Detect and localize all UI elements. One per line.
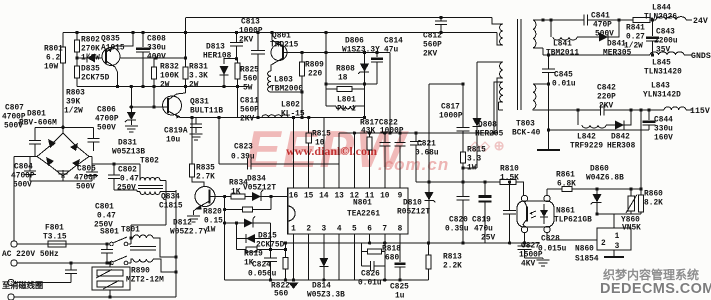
inductor L841 — [550, 20, 552, 37]
zener D810 — [425, 192, 434, 201]
capacitor C824 — [270, 223, 272, 258]
svg-text:C811: C811 — [240, 98, 259, 106]
capacitor C825 — [399, 234, 401, 262]
resistor R841 — [633, 17, 650, 22]
ground - C819A — [190, 133, 203, 135]
wire - Q801 base row — [283, 52, 390, 54]
inductor L801 — [325, 89, 327, 106]
wire - R861 row — [546, 189, 548, 195]
capacitor C801 — [106, 244, 108, 250]
wire - aux column — [325, 33, 327, 85]
wire - pin13 — [338, 133, 340, 188]
capacitor C822a — [384, 133, 386, 143]
terminal - degauss 2 — [8, 294, 14, 300]
svg-text:C805: C805 — [77, 166, 96, 174]
svg-text:0.47: 0.47 — [120, 176, 139, 184]
svg-text:560: 560 — [243, 76, 257, 84]
svg-text:Q835: Q835 — [101, 36, 120, 44]
svg-text:Q834: Q834 — [161, 194, 180, 202]
zener D812 — [225, 222, 244, 224]
svg-text:C801: C801 — [95, 204, 114, 212]
capacitor C806 — [93, 127, 95, 138]
transformer T803 primary — [492, 18, 503, 25]
svg-text:L845: L845 — [652, 60, 671, 68]
svg-text:14: 14 — [319, 193, 329, 201]
svg-text:220: 220 — [308, 71, 322, 79]
diode D842 — [606, 124, 615, 126]
ground - bridge — [62, 170, 64, 176]
svg-text:2KV: 2KV — [423, 51, 437, 59]
resistor R831 — [183, 67, 188, 79]
svg-text:500V: 500V — [97, 125, 116, 133]
wire - bus 86 — [77, 86, 186, 88]
svg-text:D842: D842 — [611, 134, 630, 142]
svg-text:0.39u: 0.39u — [445, 226, 469, 234]
transistor Q831 emitter node / resistor R835 — [191, 118, 193, 165]
capacitor C817 — [462, 84, 464, 127]
svg-text:9: 9 — [398, 193, 403, 201]
svg-text:R818: R818 — [382, 246, 401, 254]
svg-text:330u: 330u — [654, 126, 673, 134]
svg-text:7: 7 — [382, 226, 387, 234]
wire - 115V return — [549, 129, 650, 131]
wire - pin14 — [323, 118, 325, 189]
resistor R816 — [308, 118, 310, 134]
svg-text:3: 3 — [615, 243, 620, 251]
inductor L803 — [268, 71, 271, 92]
svg-text:16: 16 — [289, 193, 299, 201]
wire - rectified rail — [63, 32, 497, 34]
svg-text:43K 1000P: 43K 1000P — [361, 128, 404, 136]
svg-text:6.8K: 6.8K — [557, 181, 576, 189]
capacitor C821 — [415, 133, 417, 141]
svg-text:4: 4 — [337, 226, 342, 234]
svg-text:2KV: 2KV — [240, 116, 254, 124]
wire - bridge cap row — [35, 126, 94, 128]
capacitor C819 — [484, 182, 486, 195]
wire - Q831 base — [131, 106, 167, 108]
optocoupler N861 — [517, 201, 554, 227]
wire - link to R822 — [271, 249, 286, 251]
svg-text:TLN2026: TLN2026 — [644, 14, 677, 22]
svg-text:2200u: 2200u — [654, 38, 678, 46]
resistor R861 — [562, 186, 572, 191]
svg-text:C844: C844 — [654, 117, 673, 125]
svg-text:4KV: 4KV — [521, 261, 535, 269]
svg-text:KL-15: KL-15 — [281, 111, 305, 119]
capacitor C808 — [142, 33, 144, 48]
resistor R817 — [369, 133, 371, 137]
watermark red com.cn — [378, 155, 449, 175]
wire - feedback row 243 — [286, 242, 541, 244]
wire - drive bus 117 — [189, 117, 365, 119]
svg-text:8.2K: 8.2K — [644, 200, 663, 208]
resistor R834 — [231, 194, 245, 199]
svg-text:25V: 25V — [481, 235, 495, 243]
svg-text:3.3: 3.3 — [467, 156, 481, 164]
svg-text:C826: C826 — [361, 271, 380, 279]
zener D860 — [596, 189, 598, 194]
svg-text:0.01u: 0.01u — [552, 81, 576, 89]
svg-text:L801: L801 — [337, 97, 356, 105]
resistor R810 — [500, 179, 516, 184]
resistor R832 — [153, 58, 155, 67]
svg-text:R815: R815 — [312, 131, 331, 139]
svg-text:400V: 400V — [147, 54, 166, 62]
inductor L843 — [664, 107, 686, 110]
svg-text:R803: R803 — [66, 90, 85, 98]
svg-text:R820: R820 — [203, 209, 222, 217]
svg-text:10u: 10u — [166, 137, 180, 145]
wire - C817 top row — [429, 83, 463, 85]
svg-text:2.2K: 2.2K — [443, 263, 462, 271]
ground - Q834 — [187, 215, 200, 217]
svg-text:C1815: C1815 — [159, 203, 183, 211]
svg-text:4700P: 4700P — [11, 173, 35, 181]
svg-text:500V: 500V — [76, 184, 95, 192]
svg-text:3: 3 — [322, 226, 327, 234]
svg-text:R819: R819 — [244, 251, 263, 259]
wire - 115V row — [631, 109, 664, 111]
svg-text:100K: 100K — [160, 73, 179, 81]
svg-text:BULT11B: BULT11B — [190, 108, 223, 116]
regulator N860 S1854 — [613, 214, 615, 228]
wire - opto emitter to N860 — [547, 233, 597, 240]
svg-text:A1015: A1015 — [101, 45, 125, 53]
capacitor C819A — [189, 117, 196, 119]
resistor R801 — [62, 33, 64, 48]
svg-text:W05Z13B: W05Z13B — [112, 149, 145, 157]
svg-text:V05Z12T: V05Z12T — [243, 185, 276, 193]
svg-text:0.39u: 0.39u — [231, 154, 255, 162]
svg-text:D831: D831 — [118, 140, 137, 148]
svg-text:AC 220V 50Hz: AC 220V 50Hz — [2, 251, 59, 259]
svg-text:250V: 250V — [117, 185, 136, 193]
svg-text:10: 10 — [315, 140, 325, 148]
svg-text:D814: D814 — [312, 283, 331, 291]
svg-text:1u: 1u — [395, 293, 405, 300]
svg-text:W1SZ3.3Y: W1SZ3.3Y — [342, 47, 380, 55]
wire - AC left column — [14, 156, 37, 158]
svg-text:L844: L844 — [652, 5, 671, 13]
capacitor C842 — [578, 109, 601, 111]
transistor Q831 — [163, 96, 182, 115]
svg-text:D813: D813 — [206, 44, 225, 52]
svg-text:1: 1 — [291, 226, 296, 234]
capacitor C827 — [524, 233, 526, 243]
svg-text:R822: R822 — [271, 283, 290, 291]
varistor Y860 — [630, 189, 632, 196]
svg-text:HER108: HER108 — [203, 53, 232, 61]
diode D841 — [599, 33, 608, 42]
wire - column 224 — [224, 197, 226, 281]
capacitor C805 — [89, 156, 92, 158]
svg-text:3.3K: 3.3K — [189, 73, 208, 81]
svg-text:N801: N801 — [353, 200, 372, 208]
svg-text:C842: C842 — [597, 85, 616, 93]
svg-text:1W: 1W — [467, 165, 477, 173]
svg-text:1K: 1K — [231, 189, 241, 197]
capacitor C813 — [236, 33, 238, 43]
inductor L842 — [577, 110, 579, 125]
inductor L845 — [650, 52, 684, 55]
svg-text:11: 11 — [365, 193, 375, 201]
svg-text:Q831: Q831 — [190, 99, 209, 107]
svg-text:560P: 560P — [240, 107, 259, 115]
svg-text:0.47: 0.47 — [97, 213, 116, 221]
svg-text:R802: R802 — [81, 37, 100, 45]
svg-text:T803: T803 — [516, 121, 535, 129]
ground - D831 — [125, 125, 138, 127]
svg-text:2KV: 2KV — [599, 103, 613, 111]
svg-text:2CK75D: 2CK75D — [81, 75, 110, 83]
svg-text:C819A: C819A — [164, 128, 188, 136]
svg-text:D801: D801 — [27, 111, 46, 119]
svg-text:13: 13 — [334, 193, 344, 201]
capacitor C814 — [376, 53, 378, 58]
switch S801 — [66, 243, 110, 245]
zener D814 — [323, 234, 325, 258]
svg-text:D834: D834 — [247, 176, 266, 184]
svg-text:0.15: 0.15 — [204, 218, 223, 226]
svg-text:至消磁线圈: 至消磁线圈 — [2, 280, 43, 290]
capacitor C802 — [113, 164, 115, 175]
svg-text:5: 5 — [352, 226, 357, 234]
svg-text:D810: D810 — [403, 200, 422, 208]
svg-text:N860: N860 — [575, 246, 594, 254]
switch S801 pole2 — [110, 261, 114, 265]
svg-text:THD215: THD215 — [270, 42, 299, 50]
svg-text:C817: C817 — [441, 104, 460, 112]
svg-text:C819: C819 — [472, 217, 491, 225]
capacitor C807 — [34, 127, 36, 140]
svg-text:115V: 115V — [690, 107, 710, 116]
capacitor C803 — [70, 263, 72, 270]
wire - feedback row 182 — [416, 181, 500, 183]
thermistor R890 — [109, 263, 111, 267]
svg-text:250V: 250V — [94, 222, 113, 230]
svg-text:C806: C806 — [97, 107, 116, 115]
watermark dedecms url — [600, 281, 711, 297]
svg-text:PL-1: PL-1 — [337, 106, 356, 114]
wire - L803 bottom — [271, 91, 302, 93]
svg-text:D815: D815 — [258, 233, 277, 241]
wire - bus 133 — [339, 132, 497, 134]
resistor R808 — [326, 83, 377, 85]
svg-text:W05Z2.7Y: W05Z2.7Y — [170, 229, 208, 237]
svg-text:18: 18 — [338, 75, 348, 83]
watermark red url — [286, 144, 377, 159]
svg-text:470u: 470u — [474, 226, 493, 234]
svg-text:L841: L841 — [553, 41, 572, 49]
svg-text:D860: D860 — [590, 166, 609, 174]
svg-text:680: 680 — [385, 255, 399, 263]
svg-text:T802: T802 — [140, 158, 159, 166]
capacitor C826 — [362, 265, 371, 267]
svg-text:R808: R808 — [336, 66, 355, 74]
svg-text:D808: D808 — [478, 122, 497, 130]
inductor L802 — [262, 115, 288, 118]
svg-text:560P: 560P — [423, 42, 442, 50]
svg-text:R817C822: R817C822 — [360, 120, 398, 128]
transistor Q835 — [102, 48, 120, 66]
svg-text:2W: 2W — [160, 82, 170, 90]
wire - regulator top row — [597, 213, 641, 215]
diode D815 — [236, 223, 238, 250]
ground - C845 chassis — [537, 149, 560, 151]
svg-text:1500P: 1500P — [519, 252, 543, 260]
svg-text:47u: 47u — [384, 47, 398, 55]
resistor R803 — [74, 66, 79, 78]
svg-text:0.056u: 0.056u — [248, 271, 277, 279]
svg-text:4700P: 4700P — [2, 114, 26, 122]
svg-text:C813: C813 — [241, 19, 260, 27]
svg-text:560: 560 — [274, 291, 288, 299]
fuse F801 — [11, 241, 17, 247]
wire - pin16 — [293, 118, 295, 189]
svg-text:R890: R890 — [131, 268, 150, 276]
svg-text:C845: C845 — [554, 72, 573, 80]
wire - D810 column top — [428, 84, 430, 243]
svg-text:C820: C820 — [449, 217, 468, 225]
svg-text:6: 6 — [367, 226, 372, 234]
svg-text:TBM2011: TBM2011 — [546, 50, 579, 58]
svg-text:W05Z3.3B: W05Z3.3B — [307, 292, 345, 300]
svg-text:470P: 470P — [593, 22, 612, 30]
svg-text:500V: 500V — [13, 182, 32, 190]
resistor R822 — [285, 243, 287, 258]
svg-text:HER205: HER205 — [475, 131, 504, 139]
svg-text:GNDS: GNDS — [691, 52, 711, 61]
svg-text:0.68u: 0.68u — [415, 150, 439, 158]
capacitor C811 — [257, 33, 259, 51]
capacitor C812 — [440, 18, 442, 21]
svg-text:TRF9229: TRF9229 — [570, 143, 603, 151]
wire - pin12 — [353, 133, 355, 188]
capacitor C828 — [509, 182, 511, 210]
zener D808 — [476, 62, 478, 118]
resistor R819 — [246, 247, 257, 252]
capacitor C820 — [462, 182, 464, 197]
resistor R860 — [640, 110, 642, 189]
resistor R818 — [369, 234, 371, 243]
watermark pink fragment — [470, 138, 505, 154]
svg-text:0.01u: 0.01u — [358, 280, 382, 288]
svg-text:R861: R861 — [556, 172, 575, 180]
zener D806 — [364, 53, 366, 59]
resistor R825 — [235, 63, 240, 79]
transformer T803 secondary 24V — [533, 20, 536, 48]
inductor L844 — [656, 17, 686, 20]
capacitor C843 — [652, 20, 654, 36]
svg-text:R813: R813 — [443, 254, 462, 262]
transformer T803 core — [517, 19, 519, 110]
svg-text:D806: D806 — [345, 38, 364, 46]
capacitor C804 — [34, 151, 36, 157]
svg-text:C814: C814 — [384, 38, 403, 46]
svg-text:C824: C824 — [252, 262, 271, 270]
svg-text:2: 2 — [306, 226, 311, 234]
svg-text:C827: C827 — [521, 243, 540, 251]
transistor Q801 — [271, 45, 287, 61]
svg-text:1: 1 — [615, 233, 620, 241]
resistor R813 — [428, 243, 430, 255]
resistor R820 — [270, 197, 272, 210]
wire - bus86 ext — [186, 86, 249, 88]
wire - T802 sec to filter col — [175, 190, 177, 297]
svg-text:1/2W: 1/2W — [624, 43, 643, 51]
transformer T803 secondary 115V — [533, 84, 536, 109]
svg-text:C802: C802 — [118, 167, 137, 175]
svg-text:L842: L842 — [577, 134, 596, 142]
svg-text:C808: C808 — [147, 36, 166, 44]
capacitor C841 — [583, 19, 585, 21]
svg-text:2.7K: 2.7K — [196, 174, 215, 182]
svg-text:R860: R860 — [644, 191, 663, 199]
capacitor C844 — [648, 110, 650, 120]
svg-text:10: 10 — [380, 193, 390, 201]
resistor R815 — [460, 152, 465, 163]
svg-text:C823: C823 — [234, 144, 253, 152]
svg-text:12: 12 — [350, 193, 360, 201]
ground - C827/C828 — [542, 258, 544, 259]
wire - R802/base row — [77, 57, 102, 59]
svg-text:C825: C825 — [390, 284, 409, 292]
svg-text:R832: R832 — [160, 64, 179, 72]
wire - bridge to T802 — [89, 156, 92, 158]
svg-text:8: 8 — [398, 226, 403, 234]
wire - pins 1-5 — [293, 234, 295, 280]
svg-text:R825: R825 — [240, 67, 259, 75]
svg-text:220P: 220P — [597, 94, 616, 102]
svg-text:S801: S801 — [100, 229, 119, 237]
wire - to pin bus — [389, 53, 391, 134]
svg-text:R05Z12T: R05Z12T — [397, 209, 430, 217]
svg-text:15: 15 — [304, 193, 314, 201]
svg-text:TLN31420: TLN31420 — [644, 69, 682, 77]
IC N801 TEA2261 — [288, 188, 408, 234]
svg-text:BCK-40: BCK-40 — [512, 130, 541, 138]
capacitor C823 — [218, 118, 220, 165]
svg-text:0.27: 0.27 — [626, 34, 645, 42]
wire - B+ top rail — [186, 17, 492, 19]
svg-text:C807: C807 — [5, 105, 24, 113]
svg-text:Q801: Q801 — [272, 33, 291, 41]
transistor Q834 — [195, 187, 215, 207]
ground - pin1 — [289, 283, 299, 290]
capacitor C822b — [399, 133, 401, 143]
terminal - AC neutral — [11, 260, 17, 266]
svg-text:L843: L843 — [651, 83, 670, 91]
svg-text:R801: R801 — [44, 46, 63, 54]
wire - ground rail 280 — [225, 279, 429, 281]
diode D835 — [87, 54, 95, 63]
svg-text:330u: 330u — [147, 45, 166, 53]
svg-text:D835: D835 — [81, 66, 100, 74]
svg-text:TEA2261: TEA2261 — [347, 211, 380, 219]
zener D834 — [245, 196, 252, 198]
svg-text:5W: 5W — [243, 85, 253, 93]
svg-text:R835: R835 — [196, 165, 215, 173]
svg-text:R809: R809 — [305, 62, 324, 70]
svg-text:39K: 39K — [66, 99, 80, 107]
svg-text:T3.15: T3.15 — [43, 234, 67, 242]
svg-text:4700P: 4700P — [95, 116, 119, 124]
svg-text:R841: R841 — [626, 25, 645, 33]
svg-text:2W: 2W — [189, 82, 199, 90]
resistor R809 — [301, 53, 303, 63]
svg-text:R810: R810 — [500, 166, 519, 174]
